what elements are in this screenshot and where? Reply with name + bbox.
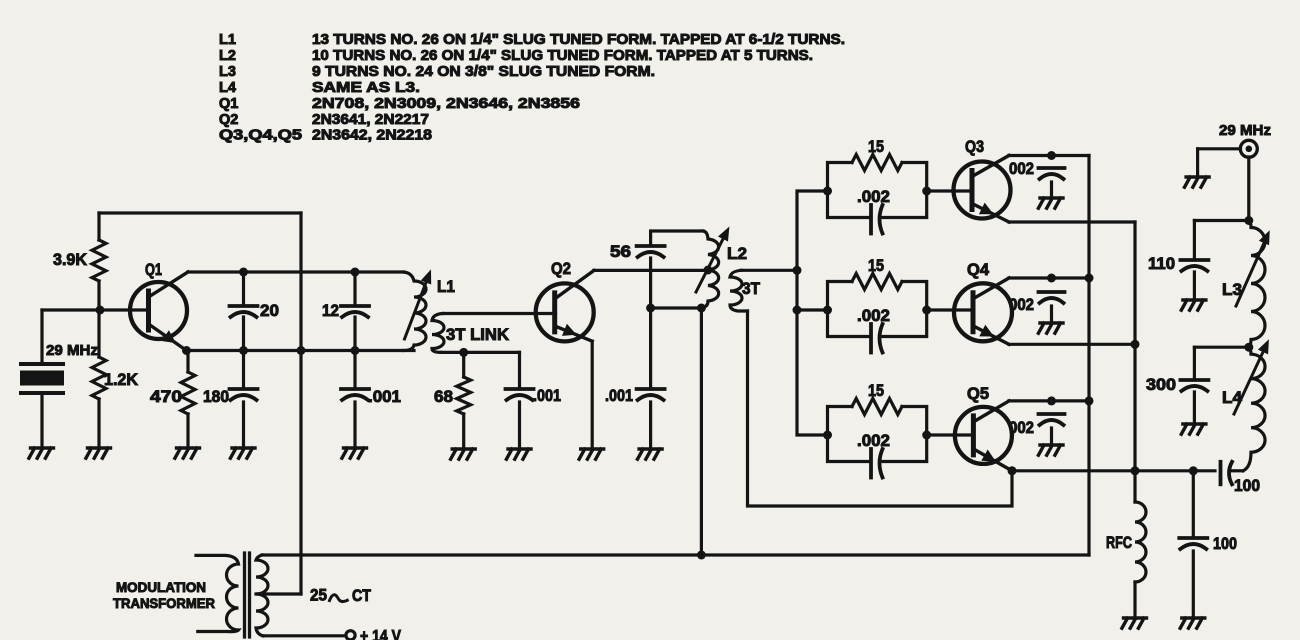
- resistor R 68 leads: [462, 352, 465, 449]
- svg-text:29 MHz: 29 MHz: [1219, 122, 1271, 139]
- wire common line from Q1 emitter: [187, 349, 415, 352]
- label +14 V: [360, 628, 401, 640]
- crystal Y1 29 MHz: [20, 364, 64, 393]
- label 3.9K: [53, 251, 87, 269]
- capacitor C .001 Q2: [637, 389, 665, 400]
- svg-text:2N708, 2N3009, 2N3646, 2N3856: 2N708, 2N3009, 2N3646, 2N3856: [312, 96, 580, 112]
- resistor R 68: [457, 377, 471, 414]
- svg-text:CT: CT: [352, 587, 371, 605]
- capacitor C .001 osc leads: [353, 351, 356, 449]
- wire modulated supply line: [262, 553, 1089, 556]
- svg-text:.001: .001: [605, 387, 633, 405]
- node bus Q4 row: [793, 306, 802, 315]
- wire 3T link bottom: [441, 351, 520, 354]
- svg-text:Q5: Q5: [967, 385, 989, 403]
- capacitor C .001 Q2 leads: [649, 308, 652, 449]
- wire output jack line: [1198, 147, 1241, 150]
- inductor RFC winding: [1135, 502, 1146, 582]
- label 470: [150, 388, 182, 406]
- transistor Q2: [536, 271, 594, 342]
- label 15 #2: [868, 257, 884, 275]
- transistor Q4: [954, 278, 1012, 344]
- inductor L4 tuning arrow: [1234, 339, 1269, 414]
- capacitor C 110 leads: [1193, 221, 1196, 300]
- label 300: [1146, 376, 1176, 394]
- wire +14V lead: [263, 634, 346, 637]
- resistor R 470 leads: [186, 351, 189, 449]
- node 100pF shunt: [1189, 466, 1198, 475]
- node 20pF bottom: [239, 346, 248, 355]
- svg-text:RFC: RFC: [1106, 534, 1132, 552]
- node 68 top: [459, 348, 468, 357]
- node Q5 collector bus: [1085, 396, 1094, 405]
- ground 470: [175, 448, 200, 458]
- node network 3 left: [823, 431, 832, 440]
- svg-text:L2: L2: [727, 245, 747, 263]
- svg-text:2N3641, 2N2217: 2N3641, 2N2217: [312, 112, 429, 128]
- svg-text:.001: .001: [533, 387, 561, 405]
- node Q5 emitter: [1008, 466, 1017, 475]
- node network 3 right: [922, 431, 931, 440]
- wire bases bus: [797, 191, 828, 435]
- label Q3: [965, 138, 984, 156]
- svg-text:2N3642, 2N2218: 2N3642, 2N2218: [312, 128, 432, 144]
- capacitor C 110: [1180, 260, 1208, 271]
- capacitor C .002 series #3: [871, 449, 883, 478]
- wire Q2 collector line (to L2 tap): [594, 269, 708, 272]
- svg-text:3.9K: 3.9K: [53, 251, 87, 269]
- transformer T1 primary: [196, 555, 239, 631]
- transformer T1 core: [245, 553, 250, 637]
- svg-text:100: 100: [1234, 477, 1260, 495]
- label 25 cycles CT: [310, 587, 371, 606]
- svg-text:9 TURNS NO. 24 ON 3/8" SLUG TU: 9 TURNS NO. 24 ON 3/8" SLUG TUNED FORM.: [312, 64, 655, 80]
- node Q1 emitter: [182, 346, 191, 355]
- svg-text:TRANSFORMER: TRANSFORMER: [113, 596, 215, 611]
- node 56/L2 bottom: [646, 304, 655, 313]
- label RFC: [1106, 534, 1132, 552]
- label 20: [260, 302, 279, 320]
- wire Q3 collector: [1009, 154, 1089, 157]
- capacitor C .001 link: [506, 389, 534, 400]
- label 002 Q5: [1009, 419, 1034, 437]
- label 180: [203, 388, 229, 406]
- transistor Q5: [955, 401, 1012, 471]
- capacitor C 100 shunt leads: [1192, 471, 1195, 617]
- resistor R 3.9K: [92, 240, 106, 281]
- node network 1 left: [823, 187, 832, 196]
- label L3: [1222, 281, 1242, 299]
- label 3T LINK: [446, 326, 509, 344]
- capacitor C 12 leads: [353, 272, 356, 351]
- ground Q2 emitter: [579, 449, 604, 459]
- svg-text:.002: .002: [857, 432, 890, 450]
- wire Q4 emitter line: [1009, 343, 1135, 346]
- inductor L1 tuning arrow: [405, 269, 432, 339]
- svg-text:SAME AS L3.: SAME AS L3.: [312, 80, 420, 96]
- capacitor C .002 bypass Q3: [1039, 168, 1065, 179]
- svg-text:L1: L1: [437, 278, 455, 296]
- inductor L3 winding: [1249, 221, 1265, 348]
- network 2 frame (15/.002 parallel): [828, 282, 927, 337]
- ground Q4 bypass: [1038, 323, 1063, 333]
- resistor R 15 #2: [852, 274, 902, 290]
- ground Q5 bypass: [1038, 445, 1063, 455]
- svg-text:110: 110: [1148, 255, 1175, 273]
- capacitor C .002 series #1: [871, 205, 883, 234]
- svg-text:.002: .002: [857, 307, 890, 325]
- ground RFC: [1122, 618, 1147, 628]
- svg-text:Q1: Q1: [219, 96, 238, 112]
- svg-text:.002: .002: [857, 188, 890, 206]
- capacitor C 300 leads: [1193, 347, 1196, 423]
- label 56: [610, 243, 631, 261]
- svg-text:002: 002: [1009, 296, 1034, 314]
- svg-text:Q2: Q2: [551, 260, 571, 278]
- label 29 MHz output: [1219, 122, 1271, 139]
- wire L2 bottom link: [651, 306, 702, 309]
- svg-text:300: 300: [1146, 376, 1176, 394]
- capacitor C .002 bypass Q5 lead: [1050, 428, 1053, 444]
- label 15 #3: [868, 382, 884, 400]
- label L4: [1222, 389, 1243, 407]
- label L2: [727, 245, 747, 263]
- crystal Y1 lead top: [40, 310, 43, 362]
- resistor R 1.2K: [92, 357, 106, 399]
- svg-text:L2: L2: [219, 48, 236, 64]
- svg-text:3T: 3T: [742, 280, 760, 298]
- svg-text:1.2K: 1.2K: [104, 371, 138, 389]
- node 12pF top: [351, 268, 360, 277]
- ground output jack: [1185, 177, 1210, 187]
- network 3 frame (15/.002 parallel): [828, 407, 927, 462]
- capacitor C 56 bottom lead: [649, 258, 652, 308]
- label 15 #1: [868, 138, 884, 156]
- wire L2 supply drop: [700, 308, 703, 555]
- label 1.2K: [104, 371, 138, 389]
- svg-text:L3: L3: [1222, 281, 1242, 299]
- node L2 bottom / supply drop: [697, 304, 706, 313]
- svg-text:L4: L4: [219, 80, 236, 96]
- node Q5 bypass: [1047, 396, 1056, 405]
- node Q4 bypass: [1047, 274, 1056, 283]
- node network 1 right: [922, 187, 931, 196]
- capacitor C 20pF: [230, 306, 258, 317]
- ground .001 link: [506, 449, 531, 459]
- svg-text:+ 14 V: + 14 V: [360, 628, 401, 640]
- wire emitter bus: [1133, 222, 1136, 471]
- svg-text:15: 15: [868, 257, 884, 275]
- node 20pF top: [239, 268, 248, 277]
- wire Q4 collector: [1009, 276, 1089, 279]
- inductor L2 tuning arrow: [696, 227, 729, 293]
- node network 2 right: [922, 306, 931, 315]
- capacitor C 56 top wire: [651, 231, 703, 245]
- wire bus to Q4 network: [797, 308, 828, 311]
- ground crystal: [29, 448, 54, 458]
- svg-text:L4: L4: [1222, 389, 1243, 407]
- node L3 top: [1244, 216, 1253, 225]
- svg-text:470: 470: [150, 388, 182, 406]
- node supply bus / common line junction: [297, 346, 306, 355]
- ground .001 osc: [342, 448, 367, 458]
- svg-text:Q4: Q4: [967, 261, 990, 279]
- ground .001 Q2: [638, 449, 663, 459]
- label 29 MHz crystal: [46, 342, 98, 359]
- wire 100 series to L4: [1233, 469, 1244, 472]
- svg-text:68: 68: [434, 388, 453, 406]
- wire 110 cap link: [1194, 219, 1248, 222]
- capacitor C .001 link leads: [518, 352, 521, 449]
- capacitor C 100 series: [1221, 462, 1233, 485]
- node L3/L4 junction: [1244, 343, 1253, 352]
- capacitor C .002 bypass Q4 lead: [1050, 306, 1053, 322]
- wire Q1 base line: [42, 308, 148, 311]
- svg-text:L1: L1: [219, 32, 236, 48]
- wire 3T secondary top (to bases bus): [741, 269, 797, 272]
- ground 180: [230, 448, 255, 458]
- inductor RFC lead top: [1133, 471, 1136, 502]
- node L2 tap (Q2 collector): [704, 266, 713, 275]
- svg-text:56: 56: [610, 243, 631, 261]
- inductor L2 winding: [701, 231, 718, 308]
- wire network 1 to base: [927, 189, 972, 192]
- capacitor C 180: [230, 389, 258, 400]
- svg-text:002: 002: [1009, 419, 1034, 437]
- node Q3 bypass: [1047, 151, 1056, 160]
- node base-divider junction: [96, 306, 105, 315]
- wire supply bus vertical (to modulation transformer CT): [299, 213, 302, 594]
- ground 68: [451, 449, 476, 459]
- label 100 shunt: [1213, 535, 1237, 553]
- wire 3T link top (to Q2 base): [443, 312, 556, 315]
- node 12pF bottom: [351, 346, 360, 355]
- svg-text:25: 25: [310, 587, 327, 605]
- label .001 osc: [368, 388, 401, 406]
- wire 3T secondary bottom return: [748, 311, 1013, 506]
- node bus 3T: [793, 266, 802, 275]
- capacitor C 12: [341, 306, 369, 317]
- capacitor C 300: [1180, 380, 1208, 391]
- wire collector bus: [1087, 156, 1090, 556]
- wire supply rail top: [99, 211, 301, 214]
- node Q4 collector bus: [1085, 274, 1094, 283]
- svg-text:20: 20: [260, 302, 279, 320]
- svg-text:Q3,Q4,Q5: Q3,Q4,Q5: [219, 128, 302, 144]
- label Q2: [551, 260, 571, 278]
- ground 110: [1181, 300, 1206, 310]
- wire output line: [1012, 469, 1215, 472]
- node supply / L2 drop: [697, 551, 706, 560]
- label 12: [322, 302, 339, 320]
- label 3T secondary: [742, 280, 760, 298]
- wire center-tap horizontal: [256, 592, 301, 595]
- inductor L3 tuning arrow: [1236, 230, 1270, 306]
- capacitor C .002 bypass Q5: [1039, 414, 1065, 425]
- parts list text block: [219, 32, 845, 144]
- inductor L4 winding: [1243, 347, 1265, 471]
- svg-text:15: 15: [868, 382, 884, 400]
- svg-text:002: 002: [1009, 160, 1034, 178]
- label L1: [437, 278, 455, 296]
- wire network 2 to base: [927, 308, 972, 311]
- wire network 3 to base: [927, 433, 972, 436]
- inductor RFC lead bottom: [1133, 582, 1136, 617]
- svg-text:100: 100: [1213, 535, 1237, 553]
- svg-text:180: 180: [203, 388, 229, 406]
- label MODULATION TRANSFORMER: [113, 580, 215, 611]
- svg-text:12: 12: [322, 302, 339, 320]
- capacitor C 180 leads: [242, 351, 245, 449]
- connector J1 29 MHz output: [1240, 140, 1257, 157]
- network 1 frame (15/.002 parallel): [828, 163, 927, 218]
- label Q1: [145, 261, 162, 279]
- label Q4: [967, 261, 990, 279]
- inductor 3T LINK winding: [432, 314, 444, 353]
- label Q5: [967, 385, 989, 403]
- resistor R 1.2K leads: [97, 310, 100, 448]
- transistor Q1: [130, 272, 188, 351]
- capacitor C .002 bypass Q3 lead: [1050, 182, 1053, 197]
- inductor L2 3T secondary winding: [730, 270, 748, 311]
- transistor Q3: [954, 156, 1011, 223]
- svg-text:13 TURNS NO. 26 ON 1/4" SLUG T: 13 TURNS NO. 26 ON 1/4" SLUG TUNED FORM.…: [312, 32, 845, 48]
- svg-text:MODULATION: MODULATION: [116, 580, 206, 595]
- svg-text:15: 15: [868, 138, 884, 156]
- label 002 Q3: [1009, 160, 1034, 178]
- capacitor C 20pF leads: [242, 272, 245, 351]
- wire 300 cap link: [1194, 346, 1248, 349]
- label 110: [1148, 255, 1175, 273]
- label 002 Q4: [1009, 296, 1034, 314]
- label .002 #3: [857, 432, 890, 450]
- node network 2 left: [823, 306, 832, 315]
- svg-text:3T LINK: 3T LINK: [446, 326, 509, 344]
- ground output jack stub: [1196, 149, 1199, 176]
- ground 300: [1181, 424, 1206, 434]
- capacitor C 100 shunt: [1179, 538, 1207, 549]
- node Q4 emitter bus: [1131, 340, 1140, 349]
- capacitor C .001 osc: [341, 389, 369, 400]
- crystal Y1 lead bottom: [40, 395, 43, 448]
- ground 100 shunt: [1180, 618, 1205, 628]
- svg-text:Q3: Q3: [965, 138, 984, 156]
- label .001 Q2: [605, 387, 633, 405]
- label .002 #2: [857, 307, 890, 325]
- wire jack to L3: [1247, 157, 1250, 221]
- label .002 #1: [857, 188, 890, 206]
- svg-text:Q1: Q1: [145, 261, 162, 279]
- wire Q5 collector: [1009, 399, 1089, 402]
- resistor R 15 #3: [852, 399, 902, 415]
- svg-text:.001: .001: [368, 388, 401, 406]
- wire Q3 emitter line: [1009, 220, 1135, 223]
- capacitor C .002 series #2: [871, 324, 883, 353]
- resistor R 15 #1: [852, 155, 902, 171]
- resistor R 470: [181, 372, 195, 414]
- transformer T1 secondary: [256, 555, 268, 636]
- label 100 series: [1234, 477, 1260, 495]
- connector +14V terminal: [346, 631, 355, 640]
- wire Q2 emitter to ground: [591, 341, 594, 449]
- resistor R 3.9K leads: [97, 213, 100, 310]
- wire Q1 collector line: [188, 270, 403, 273]
- capacitor C .002 bypass Q4: [1039, 292, 1065, 303]
- label 68: [434, 388, 453, 406]
- svg-text:29 MHz: 29 MHz: [46, 342, 98, 359]
- ground Q3 bypass: [1038, 198, 1063, 208]
- label .001 link: [533, 387, 561, 405]
- ground 1.2K: [86, 448, 111, 458]
- node emitter bus / RFC: [1131, 466, 1140, 475]
- svg-text:Q2: Q2: [219, 112, 238, 128]
- svg-text:L3: L3: [219, 64, 236, 80]
- capacitor C 56: [637, 246, 665, 257]
- svg-text:10 TURNS NO. 26 ON 1/4" SLUG T: 10 TURNS NO. 26 ON 1/4" SLUG TUNED FORM.…: [312, 48, 813, 64]
- inductor L1 winding: [403, 272, 426, 351]
